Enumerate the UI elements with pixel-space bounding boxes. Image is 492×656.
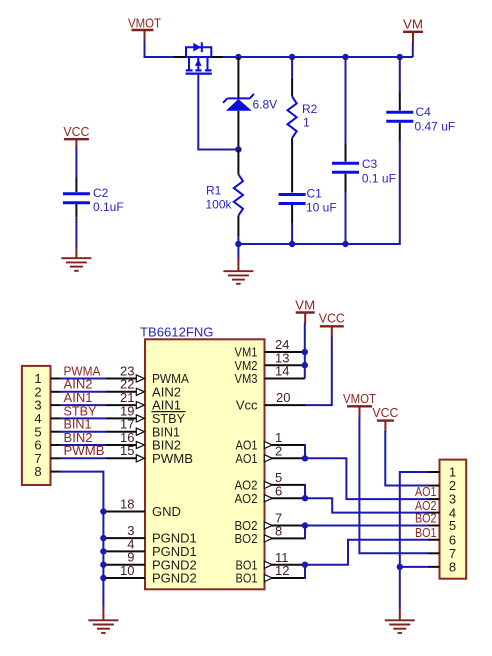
svg-text:VCC: VCC bbox=[372, 405, 398, 420]
junction gate/zener/R1 bbox=[235, 146, 241, 152]
svg-text:R2: R2 bbox=[302, 102, 318, 116]
wire VCC to pin 20 bbox=[305, 337, 332, 405]
junction VM rail VM2 bbox=[302, 362, 308, 368]
wire BO2 pin8 join bbox=[304, 526, 306, 539]
U1 pin 4 PGND1 bbox=[104, 536, 197, 559]
U1 pin 10 PGND2 bbox=[104, 563, 197, 586]
junction top rail / R2 bbox=[289, 54, 295, 60]
junction ground rail pin 10 bbox=[100, 575, 106, 581]
U1 pin 9 PGND2 bbox=[104, 550, 197, 573]
svg-text:VCC: VCC bbox=[319, 311, 345, 326]
wire J1 pin8 to ground rail bbox=[60, 472, 104, 607]
U1 pin 8 BO2 bbox=[235, 524, 305, 547]
U1 pin 17 BIN1 bbox=[106, 417, 180, 440]
junction AO1 bbox=[302, 455, 308, 461]
wire AO2 to J2 pin4 bbox=[305, 498, 429, 512]
wire BIN2 bbox=[60, 444, 107, 446]
wire BO1 to J2 pin6 bbox=[305, 540, 429, 565]
wire VCC to J2 pin2 bbox=[385, 431, 429, 486]
svg-text:1: 1 bbox=[303, 115, 310, 129]
svg-text:0.1 uF: 0.1 uF bbox=[362, 171, 396, 185]
U1 pin 13 VM2 bbox=[235, 350, 305, 373]
capacitor C4 0.47 uF bbox=[386, 92, 413, 142]
svg-text:PGND2: PGND2 bbox=[152, 571, 197, 586]
capacitor C1 10 uF bbox=[279, 195, 306, 224]
junction top rail / zener bbox=[235, 54, 241, 60]
IC U1 TB6612FNG body bbox=[145, 339, 265, 589]
zener diode 6.8V bbox=[223, 57, 254, 150]
wire VMOT to J2 pin7 bbox=[359, 417, 429, 553]
svg-text:10: 10 bbox=[120, 563, 134, 578]
svg-text:C2: C2 bbox=[93, 186, 109, 200]
wire VM stub bbox=[412, 43, 414, 57]
svg-text:VMOT: VMOT bbox=[128, 16, 161, 31]
svg-text:C1: C1 bbox=[307, 186, 323, 200]
svg-text:100k: 100k bbox=[206, 197, 233, 211]
U1 pin 3 PGND1 bbox=[104, 523, 197, 546]
power label VM (top) bbox=[403, 17, 423, 45]
wire STBY bbox=[60, 417, 107, 419]
svg-text:0.1uF: 0.1uF bbox=[93, 200, 124, 214]
wire PWMA bbox=[60, 378, 107, 380]
wire PWMB bbox=[60, 457, 107, 459]
svg-text:12: 12 bbox=[275, 563, 289, 578]
junction bottom rail / C1 bbox=[289, 241, 295, 247]
wire VCC to C2 bbox=[75, 147, 77, 179]
svg-text:Vcc: Vcc bbox=[236, 398, 258, 413]
ground (left rail) bbox=[88, 606, 118, 633]
wire BIN1 bbox=[60, 431, 107, 433]
svg-text:AO1: AO1 bbox=[236, 451, 258, 466]
svg-text:VM: VM bbox=[403, 17, 423, 32]
wire GND to J2 pin8 bbox=[400, 566, 429, 568]
svg-text:8: 8 bbox=[449, 559, 456, 574]
svg-text:TB6612FNG: TB6612FNG bbox=[140, 325, 214, 340]
power label VMOT (mid) bbox=[343, 391, 376, 418]
wire C2 to ground bbox=[75, 217, 77, 247]
junction BO1 bbox=[302, 562, 308, 568]
resistor R1 100k bbox=[234, 150, 243, 237]
capacitor C2 0.1uF bbox=[63, 178, 90, 217]
wire VM rail to VM pins bbox=[304, 323, 306, 379]
U1 pin 21 AIN1 bbox=[106, 390, 181, 413]
ground (C2) bbox=[61, 246, 91, 270]
svg-text:GND: GND bbox=[152, 504, 181, 519]
transistor Q1 P-MOSFET reverse protection bbox=[174, 42, 225, 73]
power label VCC (top left) bbox=[63, 124, 89, 148]
wire top rail to C3 bbox=[345, 57, 347, 145]
svg-text:VCC: VCC bbox=[63, 124, 89, 139]
resistor R2 1 bbox=[288, 57, 297, 193]
svg-text:BO2: BO2 bbox=[235, 531, 258, 546]
label C1 10 uF bbox=[306, 186, 337, 214]
power label VMOT (top) bbox=[128, 16, 161, 43]
U1 pin 2 AO1 bbox=[236, 443, 305, 466]
svg-text:AO2: AO2 bbox=[235, 491, 258, 506]
connector J2 (right 1-8) bbox=[429, 460, 467, 579]
power label VCC (mid) bbox=[319, 311, 345, 338]
U1 pin 15 PWMB bbox=[106, 443, 193, 466]
svg-text:5: 5 bbox=[449, 518, 456, 533]
wire VMOT to Q1 drain bbox=[145, 42, 175, 58]
wire R1 to bottom rail bbox=[237, 236, 239, 245]
svg-text:10 uF: 10 uF bbox=[306, 201, 337, 215]
wire bottom rail bbox=[238, 141, 399, 245]
svg-text:BO2: BO2 bbox=[415, 511, 437, 526]
U1 pin 22 AIN2 bbox=[106, 377, 181, 400]
U1 pin 6 AO2 bbox=[235, 483, 305, 506]
U1 pin 14 VM3 bbox=[235, 364, 305, 387]
svg-text:VM: VM bbox=[295, 297, 315, 312]
U1 pin 12 BO1 bbox=[236, 563, 305, 586]
svg-text:VM3: VM3 bbox=[235, 371, 258, 386]
svg-text:VMOT: VMOT bbox=[343, 391, 376, 406]
U1 pin 1 AO1 bbox=[236, 430, 305, 453]
svg-text:14: 14 bbox=[275, 364, 289, 379]
U1 pin 19 STBY bbox=[106, 403, 186, 426]
svg-text:20: 20 bbox=[276, 390, 290, 405]
label C2 0.1uF bbox=[93, 186, 124, 214]
junction ground rail pin 9 bbox=[100, 562, 106, 568]
wire Q1 gate to zener node bbox=[198, 74, 238, 150]
wire C1 to bottom rail bbox=[291, 223, 293, 245]
U1 pin 24 VM1 bbox=[235, 337, 305, 360]
junction BO2 bbox=[302, 522, 308, 528]
svg-text:8: 8 bbox=[275, 524, 282, 539]
junction top rail / C4 / VM bbox=[397, 54, 403, 60]
U1 pin 23 PWMA bbox=[106, 363, 189, 386]
connector J1 (left 1-8) bbox=[22, 366, 61, 485]
junction ground rail pin 4 bbox=[100, 548, 106, 554]
U1 pin 7 BO2 bbox=[235, 511, 305, 534]
svg-text:2: 2 bbox=[275, 443, 282, 458]
svg-text:0.47 uF: 0.47 uF bbox=[415, 120, 456, 134]
power label VM (mid) bbox=[295, 297, 315, 324]
U1 pin 18 GND bbox=[104, 496, 181, 519]
svg-text:15: 15 bbox=[120, 443, 134, 458]
wire top rail to C4 bbox=[399, 57, 401, 93]
junction ground rail pin 3 bbox=[100, 535, 106, 541]
svg-text:BO1: BO1 bbox=[236, 571, 258, 586]
junction GND J2 pin8 bbox=[397, 564, 403, 570]
label C3 0.1 uF bbox=[362, 157, 396, 185]
wire AO1 to J2 pin3 bbox=[305, 458, 429, 499]
U1 pin 16 BIN2 bbox=[106, 430, 181, 453]
wire bottom rail to ground bbox=[237, 244, 239, 259]
wire AIN2 bbox=[60, 391, 107, 393]
label R1 100k bbox=[206, 183, 233, 211]
junction ground rail pin 18 bbox=[100, 508, 106, 514]
U1 pin 20 Vcc bbox=[236, 390, 305, 413]
wire GND to J2 pin1 bbox=[400, 472, 429, 607]
ground (right) bbox=[385, 606, 415, 633]
junction bottom rail / R1 / ground bbox=[235, 241, 241, 247]
junction bottom rail / C3 bbox=[342, 241, 348, 247]
capacitor C3 0.1 uF bbox=[332, 144, 359, 193]
svg-text:6.8V: 6.8V bbox=[253, 97, 278, 111]
junction top rail / C3 bbox=[342, 54, 348, 60]
U1 pin 11 BO1 bbox=[236, 550, 305, 573]
wire C3 to bottom rail bbox=[345, 193, 347, 246]
ground (main filter) bbox=[223, 258, 253, 284]
svg-text:R1: R1 bbox=[206, 183, 222, 197]
wire Q1 source to VM corner bbox=[223, 56, 413, 58]
wire AO2 pins join bbox=[304, 485, 306, 498]
wire BO1 pins join bbox=[304, 565, 306, 578]
svg-text:PWMB: PWMB bbox=[152, 451, 193, 466]
U1 pin 5 AO2 bbox=[235, 470, 305, 493]
svg-text:18: 18 bbox=[120, 496, 134, 511]
junction AO2 bbox=[302, 495, 308, 501]
svg-text:8: 8 bbox=[34, 464, 41, 479]
label R2 1 bbox=[302, 102, 318, 129]
svg-text:BO1: BO1 bbox=[415, 525, 437, 540]
svg-text:C3: C3 bbox=[362, 157, 378, 171]
svg-text:C4: C4 bbox=[416, 105, 432, 119]
junction VM rail VM1 bbox=[302, 349, 308, 355]
wire BO2 to J2 pin5 bbox=[305, 525, 429, 527]
svg-text:PWMB: PWMB bbox=[64, 443, 105, 458]
label C4 0.47 uF bbox=[415, 105, 456, 133]
power label VCC (mid right) bbox=[372, 405, 398, 432]
svg-text:6: 6 bbox=[275, 483, 282, 498]
wire AIN1 bbox=[60, 404, 107, 406]
wire AO1 pins join bbox=[304, 445, 306, 458]
